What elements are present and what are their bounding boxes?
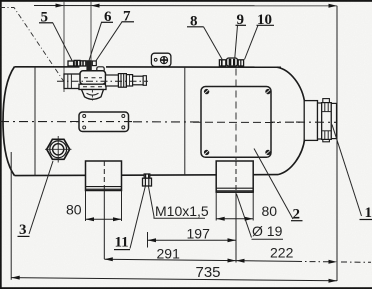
flange bolt circle line top: [322, 111, 332, 113]
extension line right end x337: [336, 6, 338, 281]
dim 291 line: [104, 259, 236, 260]
valve right pipe: [106, 75, 119, 86]
left dished head: [3, 67, 15, 176]
right head upper curve: [277, 67, 305, 103]
fitting 10 nut: [238, 60, 243, 66]
valve top nut 3: [81, 61, 86, 66]
tank bottom line: [15, 175, 279, 176]
hex plug: [47, 139, 70, 159]
dim 80 right line: [216, 218, 253, 220]
nameplate screw TL: [83, 115, 86, 118]
extension line valve nut centerline: [63, 2, 65, 92]
extension line valve axis: [90, 2, 92, 61]
flange body: [322, 103, 332, 140]
valve top nut 4: [92, 61, 96, 66]
bracket big hole: [160, 57, 167, 64]
dia19 leader: [237, 194, 252, 238]
valve hex nut right: [126, 75, 132, 86]
nameplate screw TR: [122, 115, 125, 118]
valve bottom dome: [82, 90, 104, 100]
leader 1: [332, 125, 362, 217]
border frame left: [0, 0, 2, 289]
hex plug inner circle: [53, 144, 64, 155]
flange bolt marks bottom: [324, 131, 326, 139]
tank centerline: [0, 121, 337, 124]
outlet neck: [304, 101, 317, 141]
tank top line: [15, 66, 282, 68]
mid shell weld line: [184, 67, 186, 175]
nameplate screw BL: [83, 126, 86, 129]
fitting 8 nut: [219, 60, 225, 66]
flange bolt nub top: [323, 99, 330, 103]
nameplate centerline pass: [70, 121, 136, 123]
valve top nut 1: [68, 61, 74, 66]
right leg extension right: [252, 192, 254, 220]
flange bolt circle line bottom: [322, 130, 332, 132]
valve lower flange: [79, 84, 106, 89]
top dimension line: [34, 5, 337, 7]
bracket with holes: [151, 53, 171, 66]
dim 735 line: [11, 278, 337, 281]
right leg: [216, 161, 253, 192]
right leg extension left: [215, 192, 217, 220]
left leg foot line a: [86, 186, 122, 188]
plate bolt top-left: [204, 89, 209, 94]
plate bolt top-right: [265, 89, 270, 94]
left leg centerline: [103, 161, 105, 191]
leader 8: [204, 27, 223, 60]
flange end ring: [331, 103, 336, 138]
valve knurled ring: [118, 74, 126, 88]
valve dome centerline: [91, 90, 93, 101]
right leg foot line b: [216, 190, 253, 192]
leader 6: [89, 22, 102, 60]
border frame bottom: [0, 287, 372, 289]
valve left pipe joint a: [67, 74, 69, 89]
border frame top: [0, 0, 372, 2]
valve left pipe joint b: [70, 74, 72, 89]
valve left pipe: [64, 74, 81, 89]
dim 735 extension left: [10, 152, 12, 280]
top dim arrow at valve nut centerline: [56, 4, 65, 8]
nameplate screw BR: [122, 126, 125, 129]
hex plug crosshair h: [45, 148, 72, 150]
hex plug crosshair v: [57, 136, 59, 163]
valve body: [80, 71, 106, 84]
dim 222 line: [236, 260, 296, 263]
M10x1,5 leader: [148, 186, 154, 218]
plate bolt bottom-right: [265, 150, 270, 155]
valve stem: [86, 60, 91, 71]
valve flange dashes: [83, 86, 102, 88]
bracket small hole: [154, 58, 157, 61]
top dim arrow at valve axis: [91, 4, 100, 8]
plate horizontal centerline: [193, 121, 279, 123]
left leg: [86, 161, 122, 191]
drain plug hex nut: [143, 178, 152, 186]
valve body top bump: [97, 67, 104, 72]
valve right end cap: [143, 76, 146, 86]
valve dome smile: [87, 93, 99, 95]
valve top nut 2: [74, 60, 80, 66]
dim 80 left line: [86, 218, 122, 220]
leader 9: [235, 25, 238, 58]
left leg extension right: [121, 191, 123, 222]
hex plug outer circle: [50, 141, 67, 158]
nameplate: [79, 112, 129, 132]
leader 5: [53, 23, 72, 61]
left leg foot line b: [86, 188, 122, 190]
flange ring 1: [318, 103, 322, 139]
fitting 9 cap: [227, 58, 238, 66]
safety valve blowoff centerline dash-dot: [0, 8, 64, 82]
leader 7: [96, 22, 123, 62]
left head tangent line: [34, 67, 36, 176]
dim 197 line: [148, 239, 237, 241]
flange bolt marks top: [324, 103, 326, 112]
scan noise overlay: [0, 0, 1, 1]
leader 10: [245, 25, 259, 59]
inspection plate: [201, 87, 271, 158]
leader 11: [130, 186, 145, 248]
flange bolt nub bottom: [323, 137, 330, 142]
valve horizontal centerline: [57, 80, 148, 82]
right leg centerline: [235, 161, 237, 192]
valve right pipe end: [133, 76, 144, 85]
drain plug thread stem: [144, 174, 150, 178]
right leg foot line a: [216, 187, 253, 189]
leader 2: [254, 149, 293, 220]
valve body dash row: [84, 77, 102, 79]
centerline through outlet: [296, 121, 337, 123]
leader 3: [29, 161, 53, 234]
dash-dot tail right of 222: [341, 261, 371, 263]
valve top line mask: [80, 65, 107, 72]
right head lower curve: [278, 138, 305, 175]
dim 197 extension at drain: [147, 232, 149, 248]
plate vertical centerline: [235, 69, 237, 161]
plate bolt bottom-left: [204, 150, 209, 155]
left leg extension left: [85, 191, 87, 222]
